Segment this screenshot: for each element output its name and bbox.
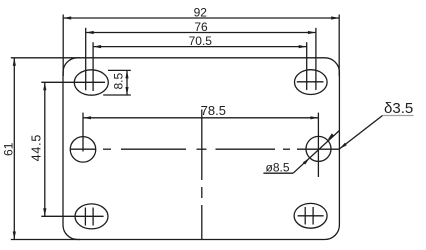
dimension 76: left extension	[85, 28, 87, 91]
arrow 61 down	[13, 232, 16, 240]
arrow 8.5 down	[125, 87, 128, 95]
svg-text:δ3.5: δ3.5	[384, 100, 413, 117]
leader line ø8.5 (through MR circle)	[293, 131, 339, 174]
svg-text:61: 61	[1, 142, 15, 156]
arrow 92 right	[331, 16, 339, 19]
svg-text:76: 76	[194, 20, 208, 34]
dimension 8.5: line	[126, 70, 128, 95]
dimension 44.5: top extension (TL hole centerline)	[41, 81, 105, 83]
dimension 92: line	[63, 17, 339, 19]
svg-text:8.5: 8.5	[111, 73, 125, 90]
svg-text:92: 92	[194, 6, 208, 20]
svg-text:78.5: 78.5	[201, 103, 226, 118]
BR hole crosshair vertical a	[304, 207, 306, 225]
arrow 92 left	[63, 16, 71, 19]
dimension 78.5: line	[83, 117, 318, 119]
hole TL (top-left slot)	[74, 70, 108, 95]
dimension 70.5: line	[93, 46, 307, 48]
horizontal centerline (dash-dot)	[70, 148, 339, 150]
dimension 8.5: bottom extension	[103, 94, 131, 96]
dimension 44.5: line	[44, 82, 46, 216]
dimension 92: right extension	[338, 15, 340, 77]
dimension 44.5: bottom extension (BL hole centerline)	[41, 215, 103, 217]
dimension 78.5: left extension	[82, 113, 84, 152]
dimension 76: line	[86, 32, 316, 34]
TR hole crosshair horizontal	[297, 81, 324, 83]
BL hole crosshair vertical b	[92, 208, 94, 226]
dimension 61: line	[13, 58, 15, 240]
dimension 61: bottom extension	[11, 239, 80, 241]
hole BL (bottom-left slot)	[75, 204, 108, 229]
dimension 70.5: right extension	[306, 42, 308, 90]
arrow ø8.5 upper (points down-left at circle edge)	[327, 133, 334, 140]
leader underline δ3.5	[383, 115, 414, 117]
dimension 76: right extension	[315, 28, 317, 90]
arrow ø8.5 lower (points up-right at circle edge)	[303, 158, 310, 165]
arrow 78.5 right	[310, 116, 318, 119]
vertical centerline (dash-dot)	[201, 110, 203, 240]
hole MR (middle-right circle ø8.5)	[306, 136, 331, 161]
dimension 8.5: top extension	[108, 69, 131, 71]
arrow 44.5 down	[43, 208, 46, 216]
BR hole crosshair vertical b	[312, 207, 314, 225]
hole TR (top-right slot)	[295, 70, 328, 95]
dimension 92: left extension	[62, 15, 64, 77]
leader underline ø8.5	[263, 172, 293, 174]
arrow 61 up	[13, 58, 16, 66]
arrow 76 right	[308, 31, 316, 34]
arrow 44.5 up	[43, 82, 46, 90]
arrow 70.5 right	[299, 45, 307, 48]
BR hole crosshair horizontal	[298, 215, 324, 217]
svg-text:44.5: 44.5	[30, 134, 44, 162]
hole BR (bottom-right slot)	[294, 203, 327, 228]
svg-text:70.5: 70.5	[189, 34, 213, 48]
dimension 61: top extension	[11, 57, 80, 59]
arrow 70.5 left	[93, 45, 101, 48]
BL hole crosshair vertical a	[84, 208, 86, 226]
arrow 8.5 up	[125, 70, 128, 78]
dimension 78.5: right extension	[317, 113, 319, 177]
arrow 76 left	[86, 31, 94, 34]
hole ML (middle-left circle)	[70, 137, 96, 163]
arrow 78.5 left	[83, 116, 91, 119]
svg-text:ø8.5: ø8.5	[266, 160, 290, 174]
arrow δ3.5 (points down-left at plate edge)	[340, 143, 347, 149]
dimension 70.5: left extension	[92, 42, 94, 91]
plate outline	[63, 58, 339, 240]
leader line δ3.5	[340, 116, 383, 149]
